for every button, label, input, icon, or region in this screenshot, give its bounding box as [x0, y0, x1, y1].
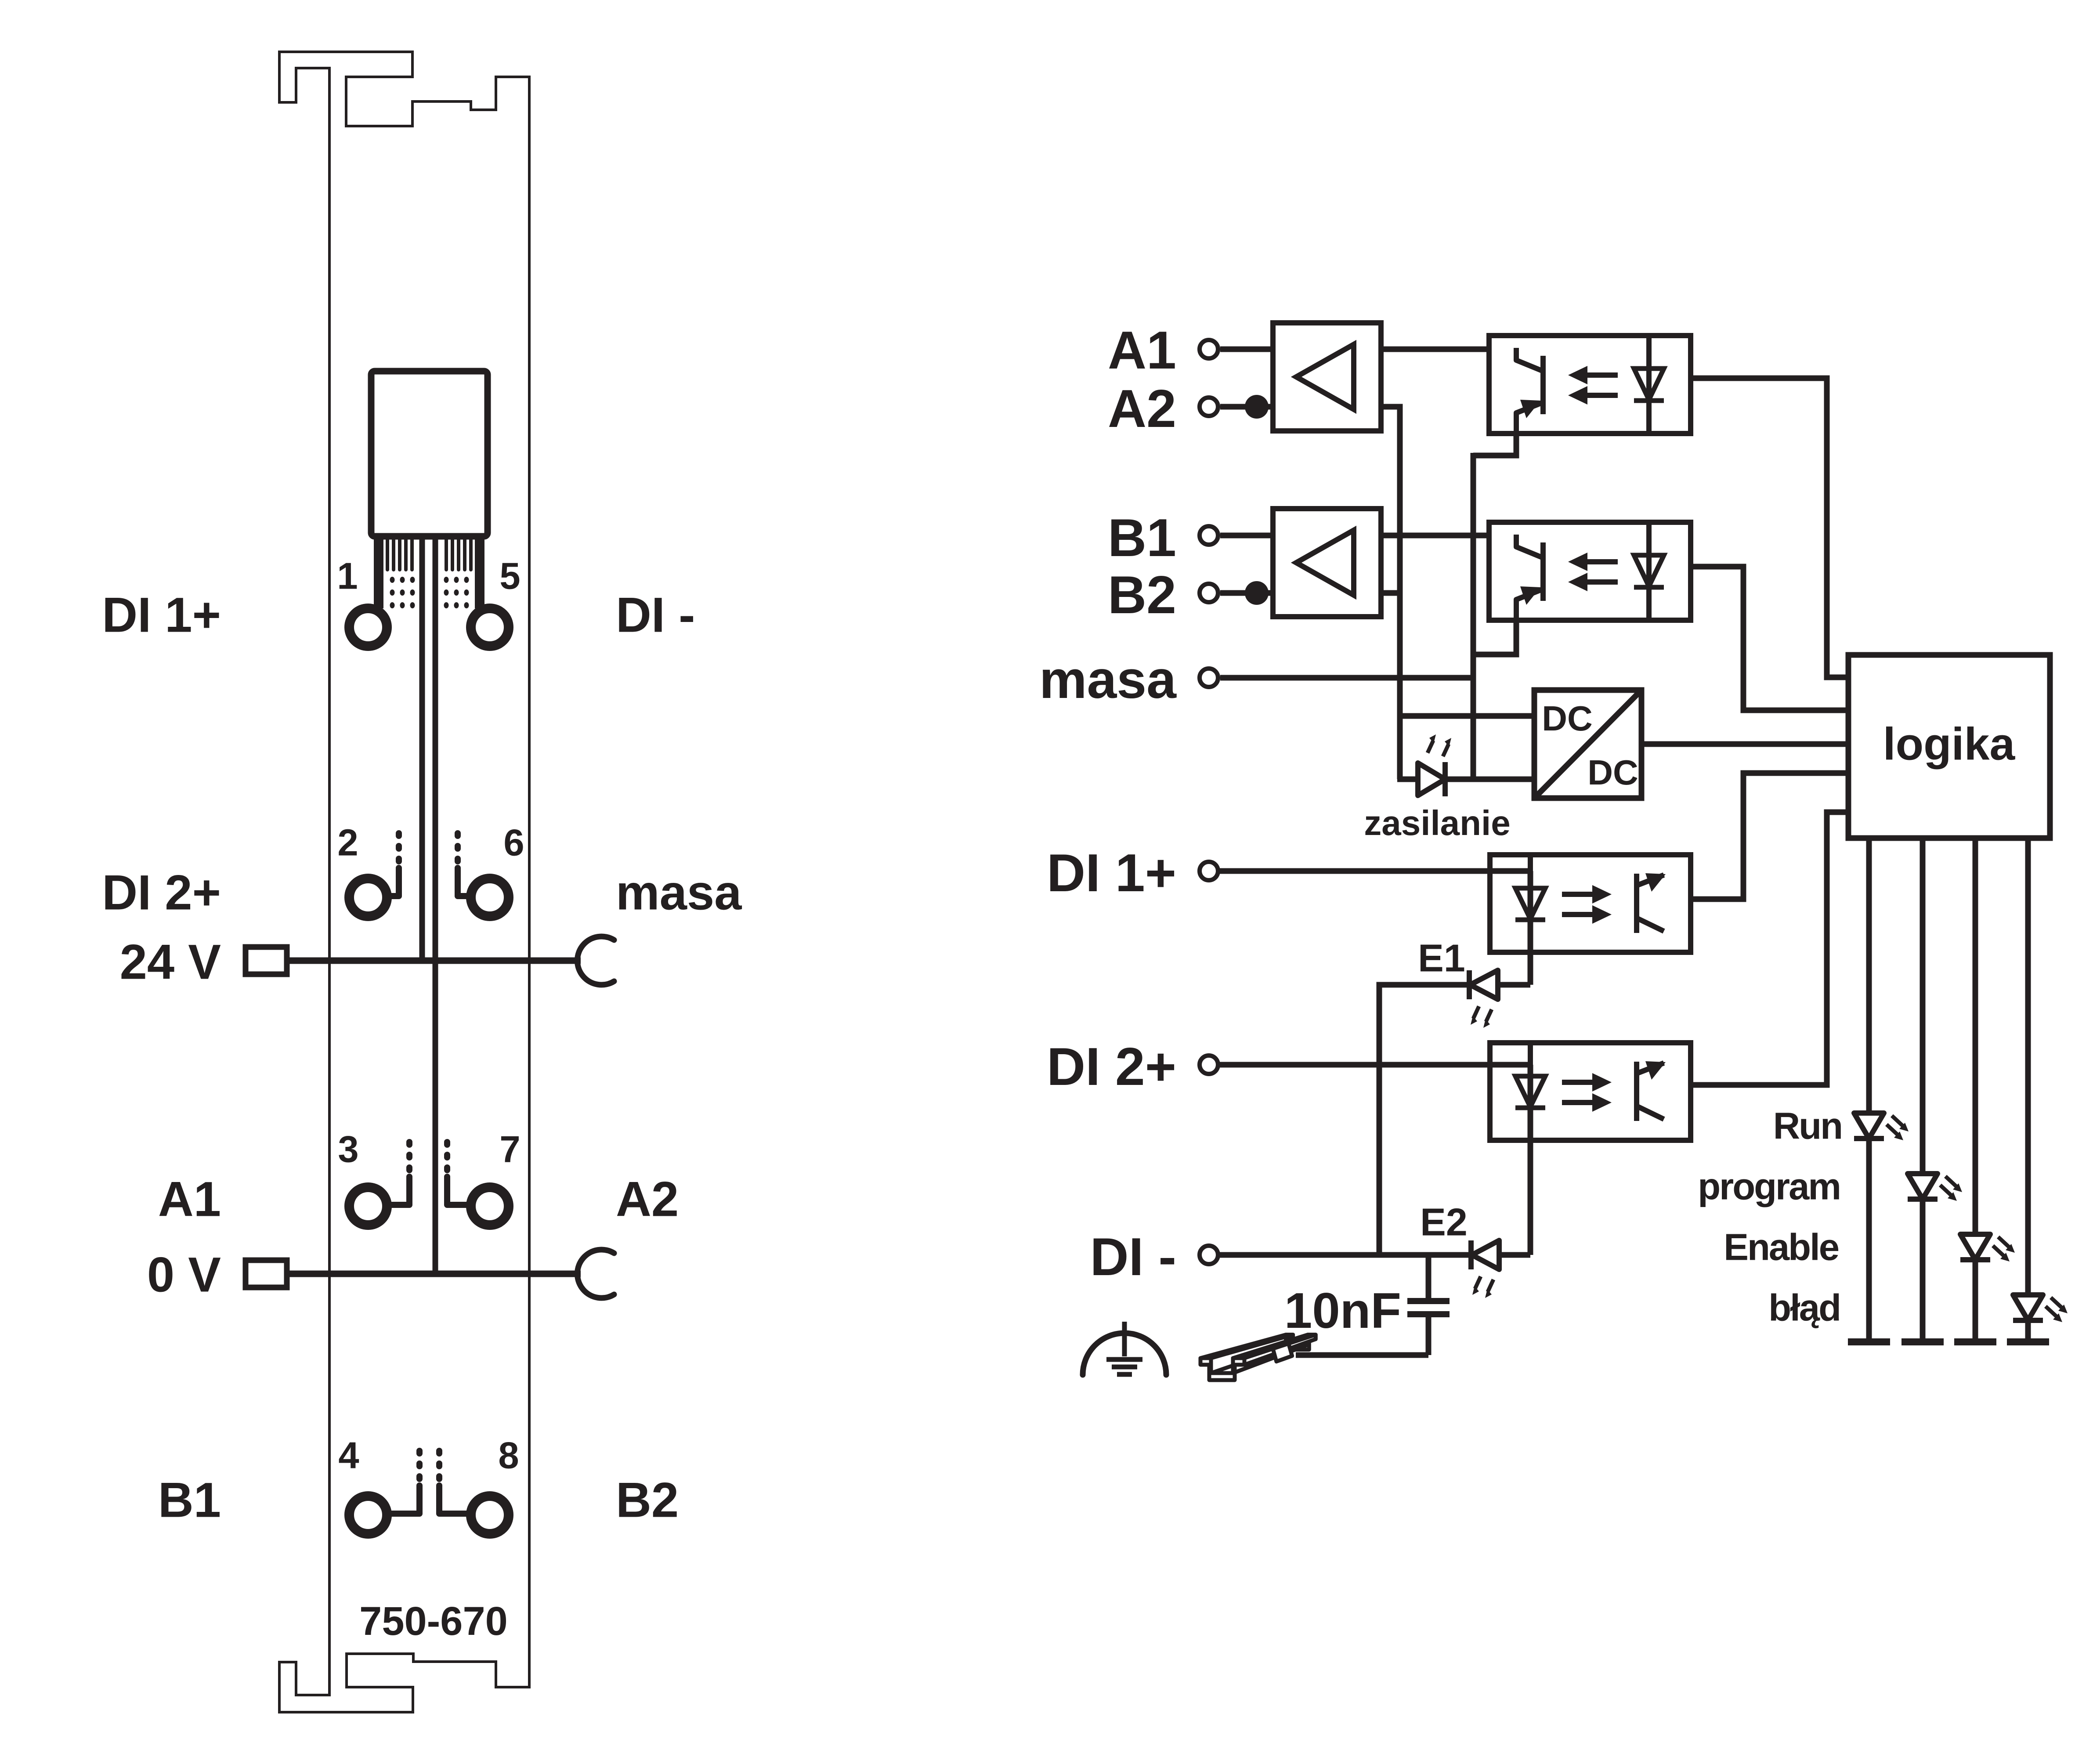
- 0V terminal tab: [246, 1260, 287, 1287]
- clamp circle pin 3: [349, 1187, 387, 1225]
- wire E1 to DI- rail: [1379, 985, 1470, 1255]
- wire DI1-opto output: [1691, 773, 1848, 899]
- socket arc masa (24V line end): [577, 936, 614, 985]
- svg-text:5: 5: [499, 556, 520, 597]
- svg-text:B2: B2: [616, 1472, 679, 1527]
- svg-text:DI -: DI -: [616, 587, 695, 642]
- svg-text:B1: B1: [1108, 508, 1176, 568]
- terminal circle DI2+: [1200, 1056, 1218, 1074]
- ground symbol: [1122, 1322, 1127, 1356]
- spring contact pin 2: [396, 833, 402, 836]
- clamp circle pin 1: [349, 608, 387, 646]
- svg-text:A1: A1: [1108, 320, 1176, 380]
- junction dot B2: [1245, 581, 1269, 605]
- wire DI1 LED chain down: [1528, 871, 1533, 985]
- 24V terminal tab: [246, 947, 287, 974]
- wire rail to DC/DC lower (left part): [1397, 777, 1418, 782]
- wire capacitor to rail: [1296, 1352, 1428, 1358]
- LED E2: [1468, 1240, 1474, 1269]
- svg-text:1: 1: [337, 556, 358, 597]
- svg-text:4: 4: [338, 1435, 359, 1477]
- clamp circle pin 5: [471, 608, 509, 646]
- svg-text:24 V: 24 V: [120, 934, 221, 989]
- svg-text:750-670: 750-670: [359, 1599, 508, 1644]
- spring contact pin 4: [416, 1451, 423, 1453]
- thin wire right 1: [445, 539, 448, 570]
- wire rail to DC/DC lower (right part): [1445, 777, 1534, 782]
- svg-text:masa: masa: [616, 865, 742, 920]
- optocoupler B: [1489, 522, 1691, 620]
- wire 24V bus (left of pair): [419, 539, 425, 961]
- svg-text:Enable: Enable: [1724, 1227, 1838, 1269]
- thin wire left 5: [410, 539, 414, 570]
- wire A-amp aux tap and supply rail: [1381, 407, 1400, 779]
- svg-text:E2: E2: [1420, 1200, 1468, 1244]
- wire DI1 chain to E1 anode: [1498, 982, 1530, 988]
- terminal circle DI-: [1200, 1246, 1218, 1264]
- wire B-opto output: [1691, 567, 1848, 710]
- wire masa rail: [1220, 675, 1476, 681]
- svg-text:DI 1+: DI 1+: [102, 587, 221, 642]
- svg-text:3: 3: [338, 1129, 358, 1171]
- logika block: [1848, 655, 2050, 838]
- svg-text:E1: E1: [1418, 936, 1465, 980]
- optocoupler DI2: [1490, 1043, 1691, 1140]
- socket arc (0V line end): [577, 1250, 614, 1298]
- svg-text:program: program: [1698, 1166, 1840, 1208]
- wire rail to DC/DC upper: [1400, 713, 1534, 719]
- terminal circle B1: [1200, 526, 1218, 545]
- svg-text:DC: DC: [1587, 753, 1638, 792]
- wire B-opto emitter jog: [1471, 620, 1516, 654]
- optocoupler A: [1489, 336, 1691, 434]
- wire A-opto emitter jog: [1473, 434, 1516, 455]
- wire masa/common rail vertical: [1471, 453, 1476, 779]
- svg-text:8: 8: [498, 1435, 519, 1477]
- wire A-opto output: [1691, 378, 1848, 677]
- thin wire left 4: [404, 539, 408, 570]
- DIN rail icon: [1286, 1335, 1316, 1350]
- svg-text:0 V: 0 V: [147, 1247, 221, 1302]
- LED E1: [1467, 970, 1472, 999]
- wire E2 to DI2 chain: [1499, 1252, 1530, 1258]
- svg-text:Run: Run: [1773, 1106, 1842, 1147]
- thin wire right 5: [469, 539, 473, 570]
- DC/DC converter: [1534, 690, 1641, 798]
- svg-text:7: 7: [499, 1129, 520, 1171]
- clamp circle pin 7: [471, 1187, 509, 1225]
- svg-text:DC: DC: [1542, 699, 1593, 738]
- module internal connector block: [371, 371, 488, 536]
- thin wire left 2: [392, 539, 395, 570]
- svg-text:masa: masa: [1039, 650, 1177, 709]
- wire A2 to amp: [1220, 404, 1273, 410]
- spring contact pin 6: [455, 833, 461, 836]
- svg-text:A1: A1: [158, 1171, 221, 1226]
- LED program column: [1920, 838, 1926, 1342]
- LED zasilanie: [1415, 763, 1421, 795]
- thin wire right 2: [451, 539, 454, 570]
- wire 24V: [287, 958, 581, 964]
- amplifier A (line receiver): [1273, 323, 1381, 431]
- clamp circle pin 4: [349, 1496, 387, 1534]
- spring contact pin 7: [444, 1142, 450, 1145]
- amplifier B (line receiver): [1273, 509, 1381, 617]
- wire B-amp to B-opto: [1381, 533, 1489, 539]
- optocoupler DI1: [1490, 855, 1691, 952]
- svg-text:B2: B2: [1108, 565, 1176, 625]
- wire B1 to amp: [1220, 533, 1273, 539]
- terminal circle A1: [1200, 340, 1218, 358]
- svg-text:A2: A2: [616, 1171, 679, 1226]
- wire A-amp to A-opto: [1381, 347, 1489, 352]
- wire B2 to amp: [1220, 590, 1273, 596]
- LED Run column: [1866, 838, 1872, 1342]
- clamp circle pin 6: [471, 878, 509, 916]
- wire B-amp aux tap: [1381, 590, 1403, 596]
- terminal circle masa: [1200, 669, 1218, 687]
- svg-text:DI 2+: DI 2+: [102, 865, 221, 920]
- junction dot A2: [1245, 395, 1269, 419]
- terminal circle DI1+: [1200, 862, 1218, 880]
- wire DI1+ to opto LED: [1220, 868, 1530, 874]
- wire A1 to amp: [1220, 347, 1273, 352]
- clamp circle pin 2: [349, 878, 387, 916]
- LED blad column: [2025, 838, 2031, 1342]
- terminal circle A2: [1200, 398, 1218, 416]
- terminal circle B2: [1200, 584, 1218, 602]
- spring contact pin 3: [406, 1142, 412, 1145]
- svg-text:6: 6: [503, 822, 524, 864]
- svg-text:A2: A2: [1108, 379, 1176, 438]
- capacitor 10nF: [1426, 1255, 1432, 1301]
- thin wire right 4: [463, 539, 466, 570]
- svg-text:DI 1+: DI 1+: [1047, 843, 1176, 903]
- wire DI2+ to opto LED: [1220, 1062, 1530, 1068]
- svg-text:logika: logika: [1883, 719, 2016, 770]
- thin wire right 3: [457, 539, 460, 570]
- svg-text:błąd: błąd: [1768, 1287, 1840, 1329]
- svg-text:DI 2+: DI 2+: [1047, 1037, 1176, 1096]
- wire logika to DI2-opto: [1691, 812, 1848, 1085]
- wire pin5 feed: [475, 539, 484, 608]
- svg-text:DI -: DI -: [1090, 1227, 1176, 1287]
- clamp circle pin 8: [471, 1496, 509, 1534]
- spring contact pin 8: [436, 1451, 442, 1453]
- LED Enable column: [1973, 838, 1978, 1342]
- svg-text:zasilanie: zasilanie: [1364, 803, 1511, 842]
- wire DI- to E2: [1220, 1252, 1471, 1258]
- svg-text:2: 2: [337, 822, 358, 864]
- svg-text:10nF: 10nF: [1284, 1283, 1401, 1339]
- wire 0V bus (right of pair): [433, 539, 438, 1274]
- wire pin1 feed: [374, 539, 383, 608]
- module 750-670 body outline: [279, 52, 529, 1712]
- wire 0V: [287, 1271, 581, 1277]
- thin wire left 3: [398, 539, 401, 570]
- wire dot matrix: [390, 577, 395, 583]
- wire DI2 LED chain down: [1528, 1065, 1533, 1255]
- svg-text:B1: B1: [158, 1472, 221, 1527]
- thin wire left 1: [386, 539, 389, 570]
- wire DC/DC to logika: [1641, 741, 1848, 747]
